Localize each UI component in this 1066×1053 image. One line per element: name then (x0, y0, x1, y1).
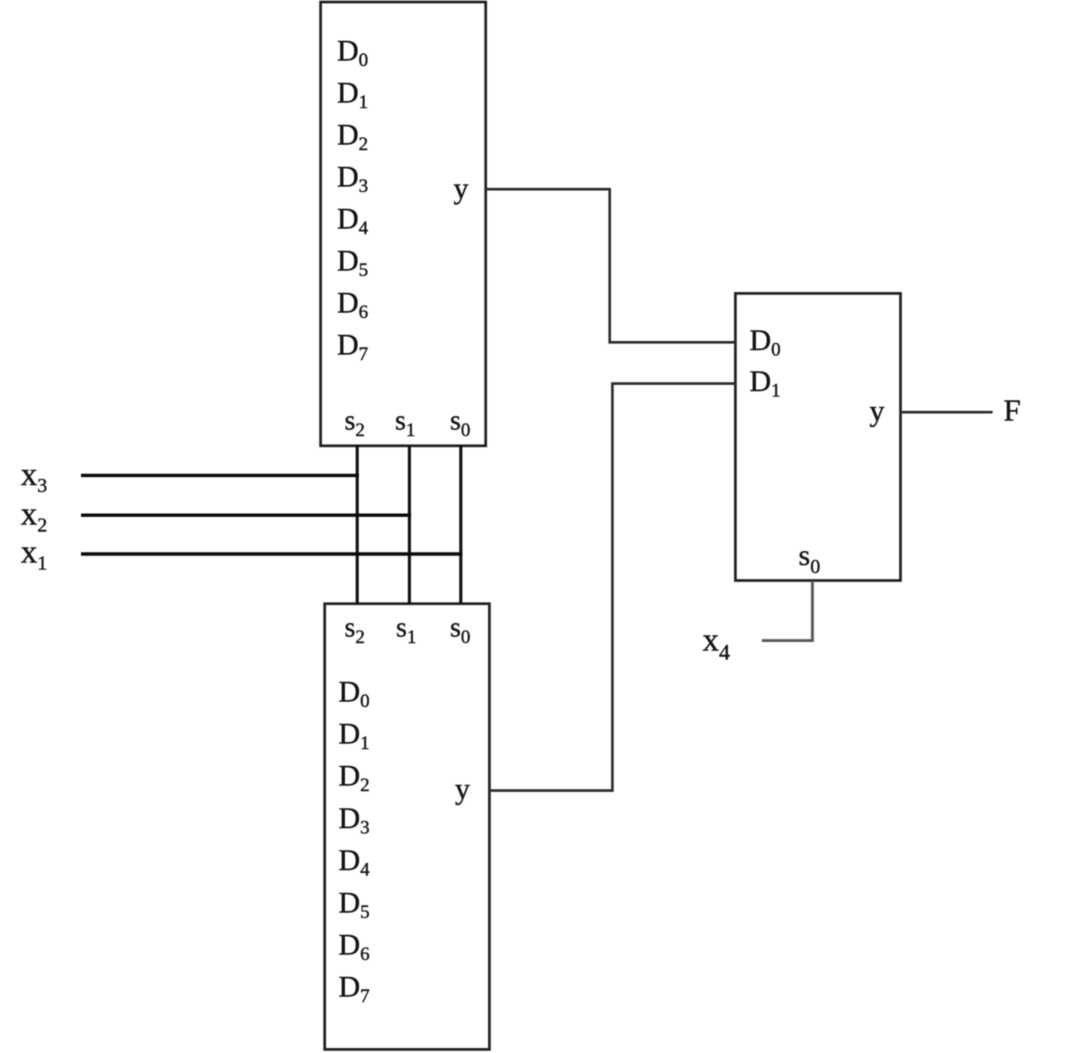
svg-text:y: y (454, 172, 469, 205)
svg-text:y: y (455, 773, 470, 806)
svg-text:F: F (1004, 393, 1021, 428)
wire U3 y output to F (900, 411, 993, 414)
wire input x3 to s2 (81, 474, 359, 477)
wire s2 stub U1 to U2 (356, 445, 359, 604)
wire s1 stub U1 to U2 (408, 445, 411, 604)
svg-text:x3: x3 (21, 457, 48, 497)
mux U2 (bottom 8-to-1) body (325, 604, 490, 1050)
wire input x1 to s0 (81, 552, 462, 555)
wire x4 to U3 s0 (gray elbow) (762, 581, 813, 641)
mux U3 (right 2-to-1) body (735, 293, 900, 580)
svg-text:x4: x4 (703, 623, 731, 665)
wire U1 y output to U3 D0 (486, 189, 736, 342)
wire U2 y output to U3 D1 (489, 384, 735, 791)
wire input x2 to s1 (81, 514, 411, 517)
mux U1 (top 8-to-1) body (321, 2, 486, 446)
wire s0 stub U1 to U2 (459, 445, 462, 604)
svg-text:x2: x2 (21, 496, 48, 536)
svg-text:x1: x1 (21, 535, 48, 575)
svg-text:y: y (870, 395, 885, 428)
